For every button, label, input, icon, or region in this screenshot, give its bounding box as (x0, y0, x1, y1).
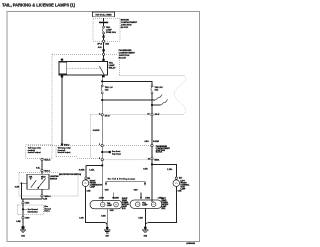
svg-text:M33-3: M33-3 (64, 145, 69, 147)
svg-text:G22: G22 (21, 235, 24, 237)
svg-text:LAMP: LAMP (107, 204, 113, 207)
svg-text:1 M50: 1 M50 (99, 197, 104, 199)
svg-text:HOT AT ALL TIMES: HOT AT ALL TIMES (96, 13, 113, 16)
svg-text:I/P-F: I/P-F (155, 114, 160, 116)
svg-text:4 M50: 4 M50 (114, 196, 119, 199)
svg-text:BLOCK: BLOCK (119, 58, 127, 60)
svg-text:M33-2: M33-2 (44, 159, 51, 161)
svg-text:0.5L: 0.5L (36, 168, 41, 170)
svg-text:BLOCK: BLOCK (156, 152, 163, 154)
svg-text:M33-4: M33-4 (45, 195, 52, 198)
svg-text:10A: 10A (155, 88, 159, 91)
svg-text:0.5B: 0.5B (138, 217, 143, 219)
svg-text:fog lamps: fog lamps (112, 153, 121, 155)
svg-text:0.5B: 0.5B (16, 221, 21, 223)
svg-text:I/P-E: I/P-E (97, 43, 102, 45)
svg-text:Distr.): Distr.) (44, 210, 49, 213)
svg-text:0.5G: 0.5G (134, 189, 138, 191)
svg-text:EM31: EM31 (154, 159, 159, 161)
svg-text:G28: G28 (144, 235, 147, 237)
svg-text:control output: control output (28, 151, 41, 154)
svg-text:1.25L: 1.25L (167, 169, 173, 171)
svg-text:0.5R: 0.5R (143, 168, 148, 170)
svg-text:2: 2 (99, 144, 100, 146)
svg-text:(LH): (LH) (122, 208, 126, 210)
svg-text:10A: 10A (105, 88, 109, 91)
svg-text:TAIL, PARKING & LICENSE LAMPS: TAIL, PARKING & LICENSE LAMPS (1) (2, 2, 76, 7)
svg-text:BLOCK: BLOCK (121, 27, 129, 29)
svg-text:Distribution: Distribution (28, 210, 38, 213)
svg-text:0.5B: 0.5B (101, 216, 106, 218)
svg-text:(RH): (RH) (161, 208, 165, 210)
svg-text:(MULTIFUNCTION SWITCH): (MULTIFUNCTION SWITCH) (59, 174, 81, 176)
svg-text:13: 13 (147, 113, 149, 115)
svg-text:E27: E27 (179, 178, 182, 180)
svg-text:RELAY: RELAY (109, 66, 116, 69)
svg-text:2 M51: 2 M51 (145, 197, 150, 199)
svg-text:LAMP: LAMP (142, 204, 148, 207)
svg-text:1.0B: 1.0B (43, 199, 48, 201)
svg-text:0.85R: 0.85R (79, 170, 85, 172)
svg-text:0.5G: 0.5G (105, 189, 109, 191)
svg-text:0.5G/R: 0.5G/R (153, 141, 160, 143)
svg-text:FUSE 10A: FUSE 10A (106, 31, 116, 34)
svg-text:0.5G/R: 0.5G/R (93, 130, 100, 132)
svg-text:SWITCH: SWITCH (50, 178, 58, 180)
svg-text:1.25L: 1.25L (89, 170, 95, 172)
svg-text:0.5B: 0.5B (15, 186, 20, 188)
svg-text:0.5L: 0.5L (98, 47, 103, 49)
svg-text:10: 10 (148, 159, 150, 161)
svg-text:M33-1: M33-1 (44, 170, 51, 172)
svg-text:3: 3 (99, 158, 100, 160)
svg-text:8: 8 (99, 113, 100, 115)
svg-text:G27: G27 (105, 235, 108, 237)
svg-text:AAW0448: AAW0448 (186, 242, 195, 245)
svg-text:0.5G: 0.5G (144, 141, 149, 143)
svg-text:LAMP: LAMP (90, 186, 96, 189)
svg-text:1.0B: 1.0B (79, 217, 84, 219)
svg-text:control output: control output (58, 151, 71, 154)
svg-text:I/P-G: I/P-G (105, 116, 110, 118)
svg-text:E8: E8 (88, 178, 90, 180)
svg-text:See Tail & Parking Lamps: See Tail & Parking Lamps (108, 178, 136, 180)
